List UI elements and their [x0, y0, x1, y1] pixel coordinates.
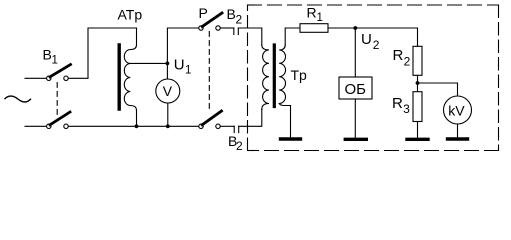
autotransformer ATp core bar: [117, 45, 120, 109]
dashed enclosure box right border: [498, 5, 500, 151]
ground (R3): [407, 138, 428, 141]
svg-text:R: R: [392, 95, 403, 112]
B2 bottom contact right tick: [238, 126, 240, 132]
switch bottom (linked to P) circle left: [199, 124, 203, 128]
svg-text:Tp: Tp: [291, 67, 308, 83]
resistor R3: [413, 92, 422, 122]
svg-text:2: 2: [236, 139, 243, 153]
resistor R2: [413, 46, 422, 75]
wire: U2 node down to OB box: [354, 28, 356, 77]
resistor R1: [300, 24, 328, 33]
wire: B2 bottom into box to Tp primary bottom: [239, 110, 262, 127]
wire: B1 bottom input: [25, 125, 46, 127]
svg-text:2: 2: [373, 38, 380, 52]
voltmeter U1 circle: [156, 79, 180, 103]
wire: node riser to P switch: [167, 28, 198, 79]
switch bottom (linked to P) circle right: [216, 124, 220, 128]
svg-text:2: 2: [236, 13, 243, 27]
switch B1 bottom lever: [50, 112, 70, 125]
dashed enclosure box bottom border: [248, 150, 499, 152]
wire: OB box to ground: [354, 99, 356, 137]
junction ATp bottom: [135, 124, 139, 128]
switch B1 bottom contact circle right: [64, 124, 68, 128]
transformer Tp secondary winding: [279, 45, 290, 106]
wire: B1 top input: [25, 77, 46, 79]
switch B1 top pole contact circle left: [47, 76, 51, 80]
dashed enclosure box top border: [248, 4, 499, 6]
ground (Tp secondary): [281, 137, 301, 140]
wire: R2 to R3: [417, 75, 419, 91]
svg-text:1: 1: [185, 65, 191, 77]
wire: R3 to ground: [417, 122, 419, 138]
bottom bus wire: [69, 125, 199, 127]
svg-text:P: P: [199, 5, 208, 21]
svg-text:2: 2: [404, 55, 411, 69]
svg-text:B: B: [227, 6, 236, 22]
junction U2 node: [353, 26, 357, 30]
svg-text:U: U: [361, 31, 372, 48]
junction voltmeter bottom: [166, 124, 170, 128]
svg-text:V: V: [163, 83, 173, 99]
wire: B2 top into box to Tp primary: [238, 28, 261, 45]
wire: voltmeter to bottom bus: [167, 103, 169, 126]
wire: R1 to R2 riser with U2 junction: [328, 28, 418, 46]
ground (kV): [448, 137, 468, 140]
wire: bottom to B2 bottom contact: [220, 125, 234, 127]
svg-text:U: U: [174, 57, 185, 74]
wire: ATp tap to voltmeter node: [130, 62, 167, 64]
B2 top contact left tick: [233, 28, 235, 35]
B2 top contact right tick: [237, 28, 239, 35]
P mechanical link (dashed): [208, 32, 210, 109]
kV meter circle: [444, 96, 472, 124]
wire: kV meter to ground: [457, 124, 459, 137]
junction tap node: [166, 62, 170, 66]
svg-text:R: R: [393, 47, 404, 64]
wire: divider node to kV meter: [418, 83, 458, 96]
transformer Tp core bar: [273, 45, 276, 107]
svg-text:ОБ: ОБ: [345, 81, 367, 98]
svg-text:R: R: [307, 5, 317, 21]
transformer Tp primary winding: [262, 45, 269, 110]
B1 mechanical link (dashed): [56, 83, 58, 118]
wire: ATp bottom to bus: [136, 111, 138, 127]
svg-text:1: 1: [52, 55, 58, 67]
wire: Tp secondary top to R1: [285, 28, 300, 45]
wire: B1 top output to riser: [69, 28, 137, 78]
wire: P to B2 top contact: [220, 27, 233, 29]
switch B1 top lever: [50, 65, 71, 77]
switch B1 top pole contact circle right: [64, 76, 68, 80]
junction divider node: [416, 81, 420, 85]
AC source tilde: [5, 96, 31, 102]
switch bottom lever: [202, 111, 221, 125]
switch P contact circle right: [216, 26, 220, 30]
wire: Tp secondary bottom to ground: [290, 106, 292, 138]
dashed enclosure box left border: [247, 5, 249, 151]
svg-text:ATp: ATp: [118, 7, 143, 23]
autotransformer ATp winding: [124, 45, 136, 111]
svg-text:3: 3: [403, 102, 410, 116]
switch B1 bottom contact circle left: [47, 124, 51, 128]
svg-text:B: B: [43, 47, 52, 63]
svg-text:1: 1: [317, 12, 323, 24]
ground (OB): [345, 138, 366, 141]
svg-text:kV: kV: [448, 103, 465, 119]
test object OB box: [339, 77, 372, 99]
switch P contact circle left: [199, 26, 203, 30]
B2 bottom contact left tick: [233, 126, 235, 132]
switch P lever: [202, 13, 222, 27]
